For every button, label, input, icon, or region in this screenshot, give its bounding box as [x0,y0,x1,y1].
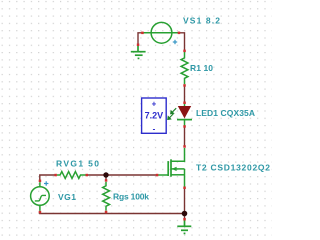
wire from Rgs bottom to bottom rail [105,212,107,214]
svg-text:VS1 8.2: VS1 8.2 [183,16,220,26]
resistor RVG1 [54,172,88,179]
resistor Rgs [103,179,110,213]
wire from node B to ground GND2 [184,214,186,220]
ground GND1 [131,46,146,59]
svg-text:T2 CSD13202Q2: T2 CSD13202Q2 [196,163,270,173]
svg-text:Rgs 100k: Rgs 100k [113,192,149,202]
wire from VG1 plus up and to RVG1 left terminal [40,175,56,181]
wire from node A down to Rgs top [105,175,107,180]
light emission arrows of LED1 [168,108,176,119]
svg-text:R1 10: R1 10 [190,63,213,73]
wire from node A to T2 gate [106,174,157,176]
wire from VS1 left terminal to ground [138,33,142,45]
svg-text:+: + [152,99,157,108]
svg-text:-: - [153,125,156,134]
node B junction dot [182,211,188,217]
plus mark of VG1 [44,181,48,185]
node A junction dot [103,172,108,177]
wire bottom rail from VG1 minus to node B [40,211,185,214]
wire from RVG1 right terminal to node A [87,174,106,176]
LED LED1 [168,102,192,128]
svg-text:7.2V: 7.2V [145,111,164,121]
wire from R1 bottom to LED1 anode [184,85,186,102]
voltage meter box 7.2V [142,98,167,134]
wire from LED1 cathode to T2 drain [184,126,186,146]
ground GND2 [177,220,191,233]
wire from VS1 right terminal to R1 top [179,33,185,51]
resistor R1 [181,50,188,87]
wire from T2 source down to node B [184,188,186,214]
svg-text:VG1: VG1 [58,192,76,202]
svg-text:LED1 CQX35A: LED1 CQX35A [196,108,255,118]
transistor T2 NMOS [156,145,186,189]
voltage source VS1 [141,22,180,43]
svg-text:RVG1 50: RVG1 50 [56,159,99,169]
plus mark of VS1 [173,40,177,44]
voltage generator VG1 [31,180,50,214]
